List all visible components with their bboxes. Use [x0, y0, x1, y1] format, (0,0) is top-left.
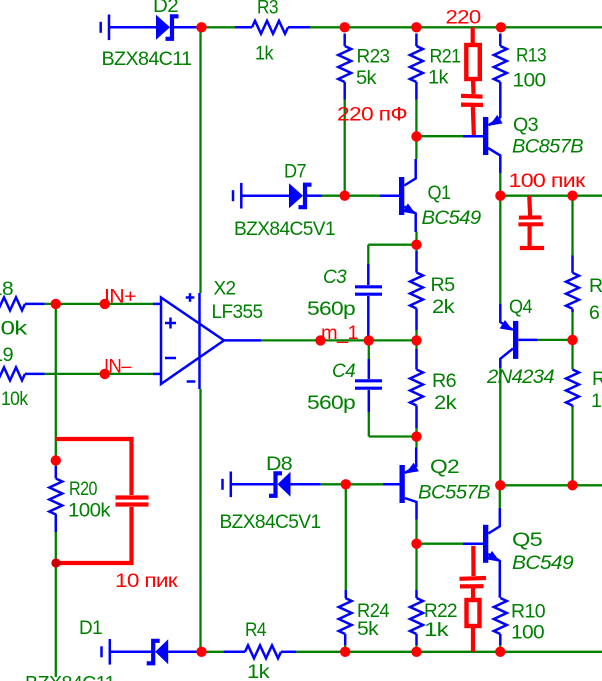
capacitor 100pik stem [529, 196, 530, 216]
node IN+ label anchor dot [100, 299, 110, 309]
label 680 of R7 partial [589, 302, 599, 324]
op-amp X1 input stub IN- [153, 373, 161, 376]
label 220 pF [337, 104, 407, 126]
red wire 10pik loop bottom [56, 507, 132, 563]
transistor Q2 BC557B [383, 448, 419, 520]
red stem to bottom rail [471, 626, 475, 652]
label R22 [424, 600, 457, 622]
label BZX84C5V1 of D7 [234, 218, 335, 240]
wire R5 bottom to m1 node [415, 330, 417, 340]
svg-text:100: 100 [511, 622, 545, 644]
wire bottom rail net V- [205, 651, 602, 653]
label C4 [332, 360, 356, 382]
svg-text:BZX84C5V1: BZX84C5V1 [234, 218, 335, 240]
resistor R8 partial right [566, 370, 579, 408]
resistor R13 [494, 34, 507, 119]
svg-text:1k: 1k [255, 43, 274, 65]
transistor Q3 BC857B [463, 115, 503, 173]
resistor R19 left [0, 367, 45, 380]
label 1k of R4 [247, 661, 270, 681]
terminal of D1 [102, 639, 110, 665]
wire 100pik node horizontal [500, 195, 602, 197]
label 5k of R23 [356, 67, 377, 89]
svg-text:1k: 1k [247, 661, 270, 681]
svg-text:2k: 2k [432, 296, 455, 318]
svg-text:C3: C3 [323, 266, 347, 288]
label R6 [432, 370, 456, 392]
node m_1 anchor dot [315, 335, 325, 345]
label 2k of R6 [434, 392, 457, 414]
label BC857B of Q3 [512, 136, 584, 158]
svg-text:R10: R10 [511, 601, 546, 623]
wire Q2 collector to Q5 base node [415, 520, 417, 544]
capacitor C? 10pik plates [116, 498, 149, 505]
wire top rail net V+ [205, 26, 602, 28]
wire IN+ net [45, 303, 154, 305]
junction 100pik node right [567, 191, 577, 201]
wire op-amp output [261, 339, 417, 341]
svg-text:R23: R23 [357, 46, 390, 68]
capacitor 100pik lower stem [527, 225, 531, 246]
capacitor 100pik plates [518, 217, 543, 224]
junction Q1 emitter-R5-C3 [411, 240, 421, 250]
junction R23-D7-Q1 base [340, 191, 350, 201]
resistor R6 [410, 349, 423, 428]
capacitor below Q5 plates [460, 578, 487, 586]
svg-text:X2: X2 [214, 278, 236, 300]
junction Q4-Q5 collectors [495, 480, 505, 490]
resistor red body bottom [467, 600, 480, 626]
junction R6-C4-Q2 emitter [411, 431, 421, 441]
label R10 [511, 601, 546, 623]
wire Q3 collector to 100pik node [499, 173, 501, 196]
resistor R3 [235, 21, 310, 34]
label 1.5k of R8 partial [591, 390, 602, 412]
wire op-amp V- rail vertical to bottom rail [199, 389, 201, 652]
svg-text:BC549: BC549 [512, 552, 574, 574]
resistor R23 [338, 34, 351, 100]
label 10k of R18 partial [1, 318, 28, 340]
label X2 [214, 278, 236, 300]
wire R7 bottom to node [571, 312, 573, 340]
red wire 10pik loop top [56, 439, 132, 495]
wire R6 bottom to Q2 emitter node [415, 428, 417, 448]
label R4 [245, 619, 267, 641]
label IN- [104, 356, 132, 378]
wire R10 bottom [499, 645, 501, 652]
label D8 [266, 453, 292, 475]
wire D1 cathode lead [110, 651, 154, 654]
label 10k of R19 [1, 388, 28, 410]
svg-text:BC549: BC549 [422, 207, 482, 229]
svg-text:19: 19 [0, 344, 13, 366]
label 1k of R21 [428, 67, 449, 89]
resistor 220 stem bottom [471, 79, 476, 94]
capacitor 220 plates [461, 96, 483, 105]
wire Q5 collector up [499, 485, 501, 508]
svg-text:1k: 1k [428, 67, 449, 89]
label Q5 [512, 529, 543, 551]
junction Q3 collector node [495, 191, 505, 201]
label R23 [357, 46, 390, 68]
wire IN- net [45, 373, 154, 375]
label Q2 [430, 456, 459, 478]
junction R21-Q1 collector-Q3 base [411, 131, 421, 141]
capacitor below Q5 base stem [471, 546, 475, 576]
wire 100pik node to R7 [571, 196, 573, 256]
label 560p of C4 [307, 392, 356, 414]
label 100k of R20 [68, 500, 111, 522]
label m_1 [321, 322, 358, 344]
wire R22 bottom [415, 645, 417, 652]
label D1 [79, 617, 102, 639]
svg-text:6: 6 [589, 302, 599, 324]
svg-text:BZX84C11: BZX84C11 [25, 673, 115, 681]
wire mid rail right [500, 484, 602, 486]
wire R8 bottom to mid rail [571, 407, 573, 485]
svg-text:Q1: Q1 [428, 182, 451, 204]
svg-text:R3: R3 [257, 0, 278, 19]
wire D1 anode lead [168, 651, 196, 654]
svg-text:1k: 1k [424, 619, 449, 641]
svg-text:Q5: Q5 [512, 529, 543, 551]
svg-text:1.5k: 1.5k [591, 390, 602, 412]
junction IN+ node [51, 299, 61, 309]
label BC557B of Q2 [418, 482, 491, 504]
resistor R21 [410, 34, 423, 100]
label R20 [69, 478, 98, 500]
junction Q2 collector-Q5 base-R22 [411, 539, 421, 549]
label 2k of R5 [432, 296, 455, 318]
svg-text:2N4234: 2N4234 [486, 366, 555, 388]
svg-text:5k: 5k [356, 67, 377, 89]
svg-text:D8: D8 [266, 453, 292, 475]
label R24 [357, 600, 390, 622]
svg-text:R8: R8 [592, 368, 602, 390]
op-amp output lead [224, 339, 261, 342]
wire R21 to Q1 collector node [415, 100, 417, 137]
svg-text:R20: R20 [69, 478, 98, 500]
transistor Q1 BC549 [380, 159, 416, 232]
op-amp V- pin mark [187, 380, 196, 383]
wire Q1 emitter to R5 [415, 232, 417, 251]
label 220 red [446, 6, 482, 28]
junction D1-R4-rail [196, 647, 206, 657]
label C3 [323, 266, 347, 288]
wire m1 node to R6 [415, 340, 417, 349]
resistor R5 [410, 251, 423, 330]
svg-text:560p: 560p [307, 392, 356, 414]
label R3 [257, 0, 278, 19]
junction R22 bottom rail [411, 647, 421, 657]
junction dot red-selected at R20 bottom [51, 558, 60, 567]
svg-text:BZX84C11: BZX84C11 [102, 48, 192, 70]
diode D2 BZX84C11 [156, 15, 179, 40]
wire D2 cathode lead [173, 26, 200, 29]
transistor Q5 BC549 [463, 508, 500, 598]
svg-text:D7: D7 [284, 161, 306, 183]
svg-text:0k: 0k [1, 318, 28, 340]
svg-text:R13: R13 [516, 45, 546, 67]
svg-text:10 пик: 10 пик [115, 570, 178, 592]
label 100 of R10 [511, 622, 545, 644]
wire D2 anode lead [109, 26, 156, 29]
label 2N4234 of Q4 [486, 366, 555, 388]
label D2 [153, 0, 178, 17]
wire V+ rail vertical to op-amp [199, 27, 201, 293]
label BZX84C11 of D1 clipped [25, 673, 115, 681]
diode D8 BZX84C5V1 [269, 472, 291, 497]
junction Q4 base-R7-R8 [567, 335, 577, 345]
wire D8 cathode lead [231, 483, 276, 486]
wire D8 anode lead [291, 483, 321, 486]
svg-text:m_1: m_1 [321, 322, 358, 344]
svg-text:10k: 10k [1, 388, 28, 410]
junction R20 top [51, 455, 61, 465]
wire R24 bottom [344, 645, 346, 652]
capacitor C3 560p [355, 264, 382, 340]
op-amp X2 LF355 triangle [161, 298, 224, 385]
junction D8-R24-Q2 base [341, 479, 351, 489]
svg-text:Q2: Q2 [430, 456, 459, 478]
wire Q4 base to R7 node [538, 339, 573, 341]
wire Q1 emitter node horizontal [368, 244, 416, 246]
terminal of D8 [223, 472, 231, 498]
transistor Q4 2N4234 [500, 304, 538, 368]
junction R5-R6-output [411, 335, 421, 345]
label LF355 of X2 [212, 301, 264, 323]
label R18 partial [0, 278, 13, 300]
capacitor 220 stem to Q3 base [473, 106, 474, 137]
resistor R7 partial right [566, 256, 579, 313]
junction C3-C4 midpoint [364, 335, 374, 345]
svg-text:220: 220 [446, 6, 482, 28]
svg-text:560p: 560p [307, 298, 356, 320]
resistor R20 100k [49, 466, 62, 532]
wire Q5 base node right [417, 543, 464, 545]
svg-text:D1: D1 [79, 617, 102, 639]
label BC549 of Q5 [512, 552, 574, 574]
junction R3-R23 top rail [340, 22, 350, 32]
label R7 partial [589, 275, 602, 297]
wire R20 bottom down [55, 514, 57, 678]
svg-text:100k: 100k [68, 500, 111, 522]
svg-text:R6: R6 [432, 370, 456, 392]
label BZX84C11 of D2 [102, 48, 192, 70]
label Q1 [428, 182, 451, 204]
junction R8 bottom mid rail [567, 480, 577, 490]
terminal of D2 [101, 15, 109, 41]
wire Q1 collector node down [415, 137, 417, 160]
terminal of D7 [233, 183, 241, 209]
op-amp power rail blue [198, 293, 201, 389]
label Q4 [509, 296, 533, 318]
svg-text:LF355: LF355 [212, 301, 264, 323]
label 5k of R24 [357, 618, 379, 640]
svg-text:R7: R7 [589, 275, 602, 297]
label R5 [431, 274, 456, 296]
op-amp plus input mark [165, 318, 176, 329]
label 100 of R13 [513, 70, 547, 92]
label R21 [430, 46, 461, 68]
wire Q5 base node down to R22 [415, 544, 417, 590]
label R8 partial [592, 368, 602, 390]
wire R23 to D7 node [344, 100, 346, 196]
label 100 pik [509, 170, 586, 192]
resistor R24 5k [339, 590, 352, 645]
resistor R4 [223, 645, 296, 658]
label 1k of R22 [424, 619, 449, 641]
resistor R10 100 [494, 598, 507, 645]
wire D8 node down to R24 [345, 484, 347, 590]
wire Q4 collector down to mid rail [499, 368, 501, 485]
wire C3 top lead vertical [367, 245, 369, 264]
wire R8 top lead [571, 340, 573, 370]
op-amp minus input mark [165, 357, 176, 360]
wire D7 cathode lead [306, 194, 322, 197]
svg-text:100: 100 [513, 70, 547, 92]
label R19 partial [0, 344, 13, 366]
wire IN+ node down to R20 [55, 304, 57, 466]
svg-text:220 пФ: 220 пФ [337, 104, 407, 126]
label 560p of C3 [307, 298, 356, 320]
capacitor-resistor red stem mid [471, 587, 475, 601]
wire D7 node to Q1 base [322, 195, 380, 197]
svg-text:100 пик: 100 пик [509, 170, 586, 192]
capacitor 100pik terminal bar [520, 246, 544, 250]
label Q3 [513, 114, 538, 136]
junction R13 top rail [496, 22, 506, 32]
junction D2-R3-rail [196, 22, 206, 32]
label 1k of R3 [255, 43, 274, 65]
svg-text:R5: R5 [431, 274, 456, 296]
label BZX84C5V1 of D8 [220, 511, 321, 533]
label R13 [516, 45, 546, 67]
svg-text:D2: D2 [153, 0, 178, 17]
wire C4 top lead [368, 340, 370, 359]
svg-text:18: 18 [0, 278, 13, 300]
junction R24 bottom rail [340, 647, 350, 657]
junction R21 top rail [411, 22, 421, 32]
label BC549 of Q1 [422, 207, 482, 229]
svg-text:BC857B: BC857B [512, 136, 584, 158]
wire C4 bottom lead L [369, 412, 417, 437]
diode D7 BZX84C5V1 [289, 183, 312, 208]
resistor 220 stem top [471, 27, 475, 46]
resistor R22 1k [410, 590, 423, 645]
svg-text:2k: 2k [434, 392, 457, 414]
diode D1 BZX84C11 [147, 639, 169, 664]
wire 100pik node down to Q4 emitter [499, 196, 501, 304]
wire D7 anode lead [241, 194, 289, 197]
svg-text:5k: 5k [357, 618, 379, 640]
svg-text:BZX84C5V1: BZX84C5V1 [220, 511, 321, 533]
resistor R18 left [0, 297, 45, 310]
svg-text:Q4: Q4 [509, 296, 533, 318]
svg-text:R21: R21 [430, 46, 461, 68]
label D7 [284, 161, 306, 183]
label 10 pik [115, 570, 178, 592]
resistor 220 body [466, 45, 480, 79]
svg-text:Q3: Q3 [513, 114, 538, 136]
wire Q1 collector node to Q3 base [416, 135, 463, 137]
op-amp V+ pin mark [186, 293, 195, 302]
op-amp X1 input stub IN+ [153, 303, 161, 306]
svg-text:R4: R4 [245, 619, 267, 641]
junction R10 bottom rail [495, 647, 505, 657]
capacitor C4 560p [355, 359, 382, 412]
node IN- label anchor dot [100, 369, 110, 379]
svg-text:C4: C4 [332, 360, 356, 382]
svg-text:BC557B: BC557B [418, 482, 491, 504]
label IN+ [104, 286, 136, 308]
wire D8 node to Q2 base [321, 483, 383, 485]
